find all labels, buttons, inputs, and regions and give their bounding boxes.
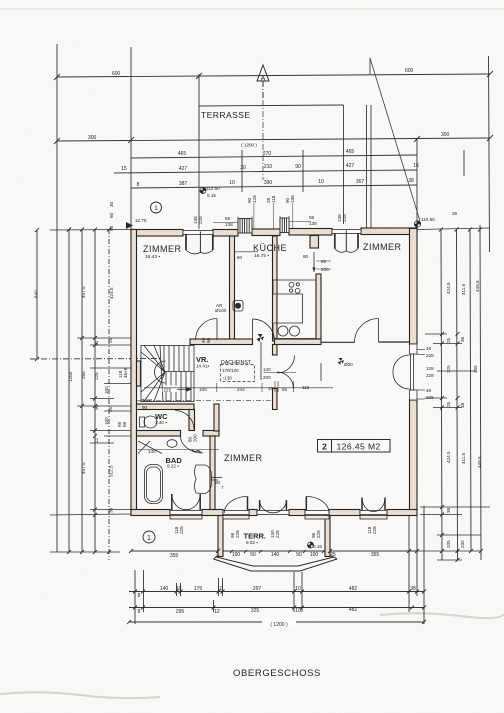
svg-text:16.43 ▪: 16.43 ▪ bbox=[145, 254, 160, 260]
svg-text:118: 118 bbox=[271, 195, 276, 203]
svg-text:10: 10 bbox=[229, 180, 235, 186]
svg-text:228: 228 bbox=[179, 526, 184, 534]
svg-text:200: 200 bbox=[193, 434, 198, 442]
svg-text:228: 228 bbox=[426, 353, 434, 358]
svg-text:38: 38 bbox=[460, 336, 465, 342]
svg-text:200: 200 bbox=[263, 375, 271, 380]
svg-text:38: 38 bbox=[408, 178, 414, 184]
svg-text:424.5: 424.5 bbox=[109, 287, 114, 299]
svg-text:OBERGESCHOSS: OBERGESCHOSS bbox=[233, 668, 321, 679]
svg-text:DACHEINST: DACHEINST bbox=[221, 360, 252, 366]
svg-text:228: 228 bbox=[372, 526, 377, 534]
svg-text:128: 128 bbox=[252, 195, 257, 203]
svg-text:58: 58 bbox=[122, 421, 127, 427]
svg-text:90: 90 bbox=[215, 480, 221, 485]
svg-text:38: 38 bbox=[109, 507, 114, 513]
svg-text:390: 390 bbox=[264, 180, 273, 186]
svg-text:10: 10 bbox=[295, 586, 301, 592]
svg-text:128: 128 bbox=[426, 366, 434, 371]
svg-text:367: 367 bbox=[356, 179, 365, 185]
svg-text:ZIMMER: ZIMMER bbox=[143, 244, 182, 254]
svg-text:TERRASSE: TERRASSE bbox=[201, 110, 251, 120]
svg-text:38: 38 bbox=[446, 507, 451, 513]
svg-text:16.75 ▪: 16.75 ▪ bbox=[254, 253, 269, 259]
svg-text:138: 138 bbox=[290, 195, 295, 203]
svg-text:355: 355 bbox=[371, 552, 380, 558]
svg-text:9.02 ▪: 9.02 ▪ bbox=[246, 540, 258, 545]
svg-text:Ø00: Ø00 bbox=[344, 362, 353, 367]
svg-text:1: 1 bbox=[147, 535, 151, 542]
svg-text:9.22 ▪: 9.22 ▪ bbox=[167, 464, 179, 469]
svg-text:25: 25 bbox=[108, 337, 113, 343]
svg-text:225: 225 bbox=[164, 388, 172, 393]
svg-text:312.5: 312.5 bbox=[109, 465, 114, 477]
svg-text:228: 228 bbox=[316, 530, 321, 538]
svg-text:411.5: 411.5 bbox=[461, 283, 466, 295]
svg-text:228: 228 bbox=[342, 214, 347, 222]
svg-text:↑130: ↑130 bbox=[222, 376, 232, 381]
svg-text:38: 38 bbox=[410, 586, 416, 592]
svg-text:90: 90 bbox=[94, 404, 99, 410]
svg-text:90: 90 bbox=[142, 405, 148, 410]
svg-text:270: 270 bbox=[263, 151, 272, 157]
svg-text:457.5: 457.5 bbox=[81, 286, 86, 298]
svg-text:8: 8 bbox=[138, 593, 141, 599]
svg-text:8: 8 bbox=[138, 609, 141, 615]
svg-text:424.5: 424.5 bbox=[446, 282, 451, 294]
svg-text:( 1200 ): ( 1200 ) bbox=[241, 143, 257, 148]
svg-text:50: 50 bbox=[250, 552, 256, 558]
svg-text:12.75: 12.75 bbox=[135, 218, 147, 223]
svg-text:112.60: 112.60 bbox=[206, 186, 220, 191]
svg-text:210: 210 bbox=[264, 164, 273, 170]
svg-text:427: 427 bbox=[179, 166, 188, 172]
svg-text:1200: 1200 bbox=[68, 371, 73, 382]
svg-text:0.15: 0.15 bbox=[313, 544, 322, 549]
svg-text:60: 60 bbox=[109, 212, 114, 218]
svg-text:228: 228 bbox=[426, 395, 434, 400]
svg-text:90: 90 bbox=[295, 164, 301, 170]
svg-text:424.5: 424.5 bbox=[446, 451, 451, 463]
svg-text:60: 60 bbox=[237, 255, 243, 260]
svg-text:138: 138 bbox=[225, 222, 233, 227]
svg-text:325: 325 bbox=[251, 608, 260, 614]
svg-text:411.5: 411.5 bbox=[461, 452, 466, 464]
svg-text:A: A bbox=[261, 76, 266, 83]
svg-text:230: 230 bbox=[460, 540, 465, 548]
svg-text:48: 48 bbox=[426, 388, 432, 393]
svg-text:140: 140 bbox=[263, 367, 271, 372]
svg-text:140: 140 bbox=[160, 586, 169, 592]
svg-text:205: 205 bbox=[446, 540, 451, 548]
svg-text:126.45 M2: 126.45 M2 bbox=[337, 442, 381, 452]
svg-text:38: 38 bbox=[460, 402, 465, 408]
svg-text:285: 285 bbox=[81, 371, 86, 379]
svg-text:Ø100: Ø100 bbox=[215, 308, 227, 313]
svg-text:225: 225 bbox=[446, 365, 451, 373]
svg-text:38: 38 bbox=[452, 211, 458, 216]
svg-text:228: 228 bbox=[426, 373, 434, 378]
svg-text:600: 600 bbox=[112, 71, 121, 77]
svg-text:100: 100 bbox=[104, 386, 109, 394]
svg-text:228: 228 bbox=[198, 216, 203, 224]
svg-text:465: 465 bbox=[346, 149, 355, 155]
svg-text:355: 355 bbox=[170, 553, 179, 559]
svg-text:175: 175 bbox=[194, 586, 203, 592]
svg-text:100: 100 bbox=[232, 552, 241, 558]
svg-text:300: 300 bbox=[88, 135, 97, 141]
svg-text:482: 482 bbox=[349, 586, 358, 592]
svg-text:58: 58 bbox=[309, 215, 315, 220]
svg-text:387: 387 bbox=[179, 181, 188, 187]
svg-text:100: 100 bbox=[310, 552, 319, 558]
svg-text:12: 12 bbox=[94, 437, 99, 443]
svg-text:1.40 ▪: 1.40 ▪ bbox=[155, 420, 167, 425]
svg-text:170/120: 170/120 bbox=[222, 368, 239, 373]
svg-text:305: 305 bbox=[473, 365, 478, 373]
svg-text:ZIMMER: ZIMMER bbox=[363, 242, 402, 252]
svg-text:25: 25 bbox=[446, 401, 451, 407]
svg-text:225: 225 bbox=[94, 372, 99, 380]
svg-text:12: 12 bbox=[214, 609, 220, 615]
svg-text:KÜCHE: KÜCHE bbox=[253, 243, 287, 253]
svg-text:30: 30 bbox=[109, 201, 114, 207]
svg-text:640: 640 bbox=[34, 290, 39, 298]
svg-text:465: 465 bbox=[178, 151, 187, 157]
svg-text:228: 228 bbox=[275, 530, 280, 538]
svg-text:30: 30 bbox=[240, 165, 246, 171]
svg-text:457.5: 457.5 bbox=[81, 462, 86, 474]
svg-text:138: 138 bbox=[309, 221, 317, 226]
svg-text:228: 228 bbox=[235, 530, 240, 538]
svg-text:ZIMMER: ZIMMER bbox=[224, 453, 263, 463]
svg-text:600: 600 bbox=[405, 68, 414, 74]
svg-text:( 1200 ): ( 1200 ) bbox=[270, 622, 288, 628]
svg-text:7: 7 bbox=[221, 485, 224, 490]
svg-text:58: 58 bbox=[225, 216, 231, 221]
svg-text:14.41▪: 14.41▪ bbox=[196, 364, 209, 369]
svg-text:140: 140 bbox=[271, 552, 280, 558]
svg-text:15: 15 bbox=[121, 166, 127, 172]
svg-text:297: 297 bbox=[253, 586, 262, 592]
svg-text:427: 427 bbox=[346, 163, 355, 169]
svg-text:10: 10 bbox=[318, 179, 324, 185]
svg-text:10: 10 bbox=[268, 386, 274, 391]
svg-text:295: 295 bbox=[176, 609, 185, 615]
svg-text:16: 16 bbox=[413, 163, 419, 169]
svg-text:140: 140 bbox=[148, 449, 156, 454]
svg-text:25: 25 bbox=[446, 337, 451, 343]
svg-text:80: 80 bbox=[303, 254, 309, 259]
svg-text:449.5: 449.5 bbox=[477, 456, 482, 468]
svg-text:110.60: 110.60 bbox=[421, 217, 435, 222]
svg-text:48+8: 48+8 bbox=[123, 367, 128, 378]
svg-text:48: 48 bbox=[426, 346, 432, 351]
svg-text:449.5: 449.5 bbox=[475, 280, 480, 292]
svg-text:25: 25 bbox=[108, 406, 113, 412]
svg-text:2: 2 bbox=[322, 442, 327, 452]
svg-text:1: 1 bbox=[154, 205, 158, 212]
svg-text:482: 482 bbox=[349, 607, 358, 613]
svg-text:300: 300 bbox=[441, 132, 450, 138]
svg-text:50: 50 bbox=[296, 552, 302, 558]
svg-text:80: 80 bbox=[321, 259, 327, 264]
svg-text:100: 100 bbox=[104, 417, 109, 425]
svg-text:10: 10 bbox=[217, 586, 223, 592]
svg-text:0.15: 0.15 bbox=[207, 193, 216, 198]
svg-text:200: 200 bbox=[321, 267, 329, 272]
svg-text:80: 80 bbox=[206, 337, 211, 343]
svg-text:8: 8 bbox=[137, 182, 140, 188]
